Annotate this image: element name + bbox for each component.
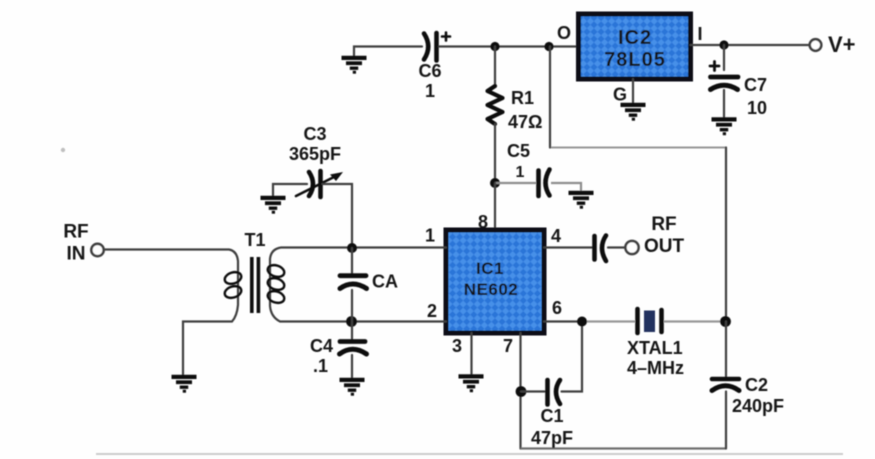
scan artifact bottom line <box>96 453 843 455</box>
wire C1 left <box>521 390 545 392</box>
svg-text:NE602: NE602 <box>464 280 518 299</box>
node junction pin2/CA/C4 <box>346 316 357 327</box>
ground (C7) <box>712 119 737 133</box>
wire C3 right down to pin1 rail <box>323 184 353 248</box>
label C4 value .1 <box>310 336 333 376</box>
svg-text:CA: CA <box>372 272 398 292</box>
svg-text:O: O <box>557 23 571 43</box>
node junction at O / down rail <box>544 42 553 51</box>
svg-text:C7: C7 <box>744 75 767 95</box>
wire C5 to ground <box>551 183 581 191</box>
ground (C4) <box>340 380 365 394</box>
svg-text:47Ω: 47Ω <box>508 112 542 132</box>
wire cap to RF OUT <box>608 246 625 248</box>
node junction pin1/C3/CA <box>347 243 357 253</box>
wire top rail right: C6 to IC2 O pin <box>439 45 579 47</box>
node junction C7 tap <box>719 40 728 49</box>
wire C7 tap down <box>723 45 725 70</box>
svg-text:2: 2 <box>427 301 437 321</box>
svg-text:10: 10 <box>747 98 767 118</box>
wire IC1 pin 6 to XTAL1 <box>544 320 582 322</box>
svg-text:C4: C4 <box>310 336 333 356</box>
label RF OUT <box>644 214 685 257</box>
wire XTAL1 to right rail <box>664 320 726 322</box>
variable capacitor C3 <box>296 171 343 197</box>
wire IC1 pin 7 down to bottom rail <box>519 333 521 449</box>
ground (top left rail) <box>342 58 367 72</box>
wire R1 node down to IC1 pin 8 <box>494 183 496 231</box>
svg-text:R1: R1 <box>511 88 534 108</box>
svg-text:IC1: IC1 <box>476 259 504 278</box>
svg-text:1: 1 <box>516 164 525 181</box>
node junction C1 left <box>516 386 527 397</box>
svg-text:G: G <box>613 85 627 105</box>
node junction C1 right / pin6 <box>577 317 587 327</box>
wire C1 right up to pin 6 net <box>562 322 583 392</box>
svg-text:78L05: 78L05 <box>604 49 666 71</box>
wire top rail left: ground to C6 <box>354 47 422 57</box>
svg-text:240pF: 240pF <box>732 396 784 416</box>
wire CA bottom <box>351 290 353 322</box>
label C5 value 1 <box>507 141 530 181</box>
svg-text:3: 3 <box>452 336 462 356</box>
wire IC1 pin 3 to ground <box>470 333 472 375</box>
crystal XTAL1 <box>638 309 662 333</box>
IC2 78L05 regulator <box>579 14 691 79</box>
ground (T1 primary) <box>172 377 197 391</box>
svg-text:RF: RF <box>651 214 676 235</box>
transformer T1 primary loops <box>223 270 243 300</box>
capacitor C5 <box>539 170 550 197</box>
label XTAL1 4-MHz <box>627 338 684 378</box>
svg-text:C3: C3 <box>303 124 326 144</box>
svg-text:T1: T1 <box>244 230 265 250</box>
label C6 value 1 <box>418 61 441 101</box>
label C7 value 10 <box>744 75 767 118</box>
label C3 value 365pF <box>289 124 341 164</box>
svg-text:7: 7 <box>503 336 513 356</box>
wire CA top <box>351 248 353 274</box>
wire IC1 pin 4 to output cap <box>544 246 592 248</box>
wire C4 to ground <box>351 355 353 378</box>
wire IC2 I pin to V+ <box>691 44 810 46</box>
label RF IN <box>63 222 88 265</box>
capacitor C4 <box>340 342 367 355</box>
op-amp IC1 NE602 <box>446 230 544 333</box>
svg-text:RF: RF <box>63 222 88 243</box>
wire C5 tap to capacitor <box>495 182 536 184</box>
svg-text:4: 4 <box>551 226 561 246</box>
svg-text:IN: IN <box>67 244 86 265</box>
wire right rail to C2 <box>725 322 727 378</box>
node junction right rail <box>720 316 731 327</box>
transformer T1 core <box>250 257 260 313</box>
terminal RF IN <box>91 244 103 256</box>
wire C4 top <box>351 322 353 340</box>
svg-text:I: I <box>697 24 702 44</box>
node junction C5 tap <box>490 178 500 188</box>
svg-text:4–MHz: 4–MHz <box>627 358 684 378</box>
terminal RF OUT <box>625 241 638 254</box>
wire C3 left to ground <box>273 184 307 196</box>
svg-text:365pF: 365pF <box>289 144 341 164</box>
svg-text:V+: V+ <box>828 32 856 57</box>
svg-text:IC2: IC2 <box>618 27 652 49</box>
svg-text:C5: C5 <box>507 141 530 161</box>
output coupling capacitor <box>595 236 607 262</box>
terminal V+ <box>810 32 856 57</box>
capacitor C2 <box>712 379 739 391</box>
svg-text:6: 6 <box>552 298 562 318</box>
wire C2 to bottom rail <box>725 392 727 449</box>
label C1 value 47pF <box>531 406 573 448</box>
wire IC2 G pin to ground <box>632 79 634 103</box>
scan artifact speck <box>61 148 65 152</box>
svg-text:C2: C2 <box>745 375 768 395</box>
resistor R1 <box>488 47 503 184</box>
transformer T1 secondary <box>266 248 446 322</box>
label C2 value 240pF <box>732 375 784 416</box>
svg-text:1: 1 <box>425 81 435 101</box>
svg-text:C6: C6 <box>418 61 441 81</box>
capacitor C7 <box>710 62 738 118</box>
wire RF IN to T1 primary <box>105 250 239 376</box>
label R1 47ohm <box>508 88 542 132</box>
wire down rail from O node to mid horizontal <box>549 47 551 148</box>
node junction at R1 top <box>490 42 499 51</box>
svg-text:XTAL1: XTAL1 <box>627 338 683 358</box>
svg-text:47pF: 47pF <box>531 428 573 448</box>
ground (C3) <box>261 198 286 212</box>
svg-text:C1: C1 <box>540 406 563 426</box>
svg-text:1: 1 <box>425 226 435 246</box>
ground (IC1 pin3) <box>459 376 484 390</box>
capacitor C1 <box>548 380 561 405</box>
ground (C5) <box>569 193 594 207</box>
svg-text:.1: .1 <box>313 356 328 376</box>
capacitor C6 <box>424 33 450 61</box>
capacitor CA <box>340 276 367 289</box>
svg-text:OUT: OUT <box>644 236 685 257</box>
ground (IC2 G) <box>621 105 646 119</box>
